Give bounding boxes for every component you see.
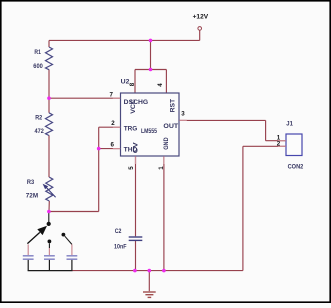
wire R2 top lead (48, 98, 50, 113)
ground symbol GND (143, 292, 156, 297)
wire R3 bottom lead (48, 201, 50, 212)
svg-text:1: 1 (158, 166, 165, 170)
wire J1 pin2 vertical (242, 146, 244, 270)
op-amp U2 LM555 body (121, 93, 180, 156)
wire vcc junction vertical (150, 40, 152, 69)
wire pin7 horizontal (49, 97, 121, 99)
svg-text:600: 600 (33, 63, 43, 70)
wire pin8 VCC stub (134, 70, 136, 94)
capacitor C-B plates (44, 256, 55, 259)
svg-text:4: 4 (157, 83, 164, 87)
connector J1 body (286, 134, 302, 156)
svg-text:72M: 72M (26, 193, 38, 200)
wire R1 bottom lead (48, 70, 50, 99)
capacitor C2 (129, 237, 143, 240)
switch wiper arrow (27, 232, 39, 243)
node vcc bracket junction (149, 68, 153, 72)
resistor R3 variable (46, 177, 53, 201)
node TRG-THD (97, 147, 101, 151)
svg-text:VCC: VCC (130, 99, 137, 114)
wire J1 pin2 horizontal (243, 145, 286, 147)
svg-text:CV: CV (132, 141, 139, 153)
svg-text:RST: RST (169, 99, 176, 113)
svg-text:GND: GND (163, 137, 170, 150)
svg-text:LM555: LM555 (141, 128, 157, 135)
switch contact node C (62, 233, 66, 237)
wire pin2 TRG horizontal (99, 126, 121, 128)
wire R1 top lead (48, 40, 50, 47)
node pin1 ground (162, 269, 166, 273)
svg-text:R1: R1 (34, 49, 41, 56)
svg-text:R2: R2 (35, 115, 42, 122)
svg-text:+12V: +12V (193, 13, 209, 20)
svg-text:2: 2 (277, 141, 281, 148)
svg-text:TRG: TRG (124, 125, 138, 132)
svg-text:10nF: 10nF (114, 244, 127, 251)
pink pin stubs of U2 (113, 98, 187, 164)
resistor R1 (46, 47, 53, 70)
resistor R2 (46, 113, 53, 136)
switch node C lead (65, 236, 72, 244)
svg-text:J1: J1 (286, 120, 293, 127)
wire +12V drop (199, 30, 201, 40)
wire pin4 RST stub (165, 70, 167, 94)
node C2 ground (133, 269, 137, 273)
svg-text:472: 472 (35, 128, 45, 135)
wire ground stub (148, 271, 150, 292)
svg-text:8: 8 (129, 82, 136, 86)
svg-text:3: 3 (181, 111, 185, 118)
R3 wiper arrow (46, 187, 56, 197)
svg-text:OUT: OUT (163, 123, 178, 130)
node gnd stub (148, 269, 152, 273)
wire pin5 CV vertical (135, 156, 137, 236)
wire switch common stub (48, 212, 50, 223)
capacitor C-A plates (23, 256, 34, 259)
svg-text:7: 7 (110, 91, 114, 98)
svg-text:R3: R3 (27, 179, 35, 186)
wire pin1 GND vertical (163, 156, 165, 271)
wire TRG-THD vertical riser (98, 127, 100, 211)
wire R2 bottom to R3 top (48, 135, 50, 177)
switch contact node B (48, 240, 52, 244)
node R3 bottom (47, 210, 51, 214)
power symbol +12V circle (198, 27, 202, 31)
capacitor bank bottom leads and rail (28, 260, 73, 271)
svg-text:2: 2 (111, 120, 115, 127)
J1 pink pin stubs (278, 141, 286, 147)
wire pin3 OUT horizontal (179, 119, 266, 121)
wire top horizontal rail (49, 39, 200, 41)
wire OUT down corner (265, 120, 267, 140)
node top rail junction (149, 39, 153, 43)
switch contact node A (47, 222, 51, 226)
wire C2 bottom lead (135, 241, 137, 271)
wire bottom ground rail (72, 270, 243, 272)
wire vcc-rst bracket (135, 69, 166, 71)
wire pin6 THD horizontal (99, 148, 121, 150)
switch node B lead (48, 243, 50, 248)
svg-text:6: 6 (111, 142, 115, 149)
capacitor C-C plates (67, 256, 78, 259)
svg-text:C2: C2 (115, 228, 122, 235)
node R1-R2-pin7 (47, 96, 51, 100)
wire to J1 pin1 (266, 140, 286, 142)
svg-text:5: 5 (128, 166, 135, 170)
svg-text:CON2: CON2 (288, 164, 304, 171)
wire R3 junction horizontal (49, 211, 99, 213)
capacitor bank pink top leads (28, 244, 72, 255)
